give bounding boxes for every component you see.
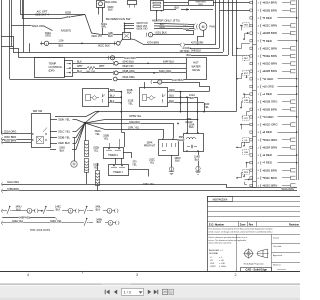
fuse F6 624G <box>113 61 115 65</box>
connector J1 pin 16 (13 RED) <box>250 116 253 118</box>
resistor R-temp zigzag <box>87 66 95 69</box>
wire module out right <box>163 9 176 11</box>
svg-text:502B BRN: 502B BRN <box>264 107 277 111</box>
switch SW-A3 <box>83 210 85 212</box>
wire 8 RED <box>262 132 264 134</box>
svg-text:321A ORG: 321A ORG <box>7 181 19 184</box>
svg-text:BLK: BLK <box>195 158 200 161</box>
svg-text:349Q YEL: 349Q YEL <box>50 219 62 223</box>
wire motor pin 2 down <box>102 8 104 35</box>
wire 502C BRN <box>262 25 264 27</box>
wire timer2 pin risers <box>109 143 111 147</box>
svg-text:1.5A: 1.5A <box>58 39 63 42</box>
svg-text:9 RED: 9 RED <box>264 153 272 157</box>
inline connector X6 <box>85 159 89 173</box>
svg-text:ORG: ORG <box>45 34 51 38</box>
svg-text:10 GRD: 10 GRD <box>264 84 274 88</box>
svg-text:REAR: REAR <box>178 139 185 142</box>
connector J1 pin 4 (502C BRN) <box>250 24 253 26</box>
svg-text:FAN: FAN <box>210 25 215 29</box>
svg-text:YEL: YEL <box>94 166 99 169</box>
wire left bus V4 <box>20 0 22 15</box>
connector J1 pin 21 (9 RED) <box>250 154 253 156</box>
wire fanout feed 330B YEL <box>50 137 57 139</box>
svg-text:348F YEL: 348F YEL <box>19 215 31 219</box>
svg-text:± .0050: ± .0050 <box>219 266 227 268</box>
blower switch SW1 box <box>123 33 131 40</box>
right bus line 1 <box>296 0 298 180</box>
title divider right <box>271 234 273 271</box>
DRI diag <box>43 128 47 133</box>
svg-text:BLK: BLK <box>169 99 174 103</box>
svg-text:634C ORG: 634C ORG <box>159 70 171 73</box>
wire 33PL YEL <box>85 123 164 138</box>
hot water valve box <box>187 58 207 80</box>
svg-text:BLOWER FAN SW: BLOWER FAN SW <box>106 17 131 21</box>
terminal box <box>291 100 296 103</box>
svg-text:RET: RET <box>244 58 249 60</box>
wire switch feed <box>103 34 123 36</box>
switch SW-A1 <box>6 210 8 212</box>
bus junction <box>296 154 298 156</box>
blower terminal dots <box>124 22 126 24</box>
wire 7 RED <box>262 162 264 164</box>
svg-text:602A ORG: 602A ORG <box>105 0 117 4</box>
terminal box <box>291 62 296 65</box>
wire fanout feed 330S BLK <box>50 149 56 151</box>
wire feed to J1 pin 22 <box>247 162 250 164</box>
connector J1 pin 18 (8 RED) <box>250 131 253 133</box>
svg-text:N/S(90T): N/S(90T) <box>61 29 71 32</box>
svg-text:BLU: BLU <box>110 93 115 97</box>
terminal box <box>291 138 296 141</box>
connector J1 pin 13 (1 RED) <box>250 93 253 95</box>
wire left bus V5 <box>22 0 24 19</box>
svg-text:4: 4 <box>27 273 29 277</box>
wire timer2 right <box>123 153 132 159</box>
thermal switch T1 <box>27 208 32 213</box>
wire stack to wireA <box>86 172 88 184</box>
wire 602B VIO <box>20 14 85 16</box>
svg-text:330K YEL: 330K YEL <box>58 117 71 121</box>
wire 101V jog <box>200 82 210 92</box>
connector J1 pin 8 (502E BRN) <box>250 55 253 57</box>
svg-text:WHT: WHT <box>77 65 83 68</box>
svg-text:332F BLK: 332F BLK <box>58 141 70 145</box>
svg-text:Material: Material <box>273 263 281 266</box>
connector bottom elbow <box>245 179 253 181</box>
svg-text:332A BLK: 332A BLK <box>129 121 140 124</box>
wire timer out <box>128 170 149 177</box>
svg-text:602K VIO: 602K VIO <box>137 27 148 31</box>
wire riser R1 <box>219 0 221 48</box>
button prev page <box>114 290 117 295</box>
wire 502B BRN <box>262 33 264 35</box>
connector J1 pin 25 (502G BRN) <box>250 184 253 186</box>
svg-text:04B BLK: 04B BLK <box>191 48 201 52</box>
svg-text:YEL: YEL <box>128 102 133 105</box>
svg-text:BLU: BLU <box>169 93 174 97</box>
bus junction <box>296 78 298 80</box>
resistor module RM1 box <box>151 1 164 11</box>
wire 10 GRD <box>262 86 264 88</box>
svg-text:BLK: BLK <box>16 209 21 212</box>
wire WHT temp <box>73 68 87 70</box>
svg-text:Revision: Revision <box>289 223 300 226</box>
wire 5 RED <box>262 40 264 42</box>
connector J1 body <box>252 0 254 187</box>
svg-text:601B ORG: 601B ORG <box>264 100 278 104</box>
svg-text:YEL: YEL <box>204 106 209 109</box>
svg-text:WATER: WATER <box>191 64 200 68</box>
connector J1 pin 22 (7 RED) <box>250 161 253 163</box>
svg-text:YEL: YEL <box>104 137 109 140</box>
wire 427H BRN <box>144 44 180 46</box>
toolbar tab highlight <box>102 284 131 285</box>
inline connector X5 <box>85 141 89 157</box>
relay K2 coil <box>187 138 196 140</box>
svg-text:634D VIO: 634D VIO <box>123 65 134 68</box>
title right cells <box>272 243 301 245</box>
svg-text:Unless otherwise specified dim: Unless otherwise specified dimensions ar… <box>208 236 247 239</box>
connector J1 pin 12 (10 GRD) <box>250 85 253 87</box>
right bus line 2 <box>298 0 300 180</box>
connector J1 pin 17 (601D ORG) <box>250 123 253 125</box>
svg-text:BLK: BLK <box>59 45 64 48</box>
wire 04A row <box>190 48 219 50</box>
wire 348F YEL <box>2 217 55 219</box>
svg-text:375B BRN: 375B BRN <box>7 188 19 191</box>
svg-text:BLK: BLK <box>56 209 61 212</box>
title section line <box>207 234 300 236</box>
bus junction <box>296 131 298 133</box>
connector J1 pin 7 (502C BRN) <box>250 47 253 49</box>
wire jog at node J2 <box>10 49 19 58</box>
wire 1 RED <box>262 94 264 96</box>
svg-text:.XXXX: .XXXX <box>210 266 217 268</box>
wire 601B ORG <box>262 101 264 103</box>
wire 101B to valve jog <box>181 91 210 93</box>
svg-text:Drawn: Drawn <box>273 236 280 239</box>
wire 6 RED <box>262 17 264 19</box>
button last page <box>154 290 157 295</box>
wire timer link <box>115 158 117 164</box>
svg-text:LRB: LRB <box>244 100 249 102</box>
svg-text:634A ORG: 634A ORG <box>123 76 135 79</box>
connector J1 pin 19 (502G BRN) <box>250 139 253 141</box>
wire 103A BLK drop <box>197 97 199 133</box>
third angle projection symbol circle <box>245 250 253 258</box>
wire 15A BLK <box>49 43 117 45</box>
relay K2 pins <box>186 132 188 134</box>
wire 502E BRN <box>262 55 264 57</box>
wire 375B BRN long <box>2 190 297 192</box>
svg-text:HOT: HOT <box>193 61 199 65</box>
svg-text:ORL: ORL <box>101 26 107 29</box>
svg-text:5 RED: 5 RED <box>264 39 272 43</box>
fuse F7 634B <box>113 71 115 75</box>
wire diagonal 602C VIO <box>85 15 103 35</box>
fuse F2 <box>41 41 43 45</box>
svg-text:E.O. Number: E.O. Number <box>209 223 224 226</box>
svg-text:8 RED: 8 RED <box>264 130 272 134</box>
terminal box <box>291 24 296 27</box>
relay K1 box <box>159 140 179 156</box>
TEMP CONTROL enclosure <box>35 58 65 78</box>
svg-text:502E BRN: 502E BRN <box>264 168 277 172</box>
terminal box <box>291 169 296 172</box>
wire BLK temp <box>73 63 113 65</box>
wire riser 204 <box>204 103 206 112</box>
svg-text:ANGULAR ± ?°: ANGULAR ± ?° <box>209 249 223 252</box>
terminal box <box>291 31 296 34</box>
svg-text:BLK: BLK <box>127 92 132 95</box>
svg-text:502C BRN: 502C BRN <box>264 24 278 28</box>
buzzer BZ1 <box>71 161 77 167</box>
button first page <box>104 290 106 295</box>
motor B1 symbol <box>99 2 103 6</box>
wire feed to J1 pin 14 <box>242 102 247 108</box>
top module X9 <box>128 1 137 5</box>
svg-text:Checked: Checked <box>273 246 282 248</box>
svg-text:11 RED: 11 RED <box>264 77 274 81</box>
terminal box <box>291 1 296 4</box>
wire 502D BRN <box>262 63 264 65</box>
TEMP connector pins <box>69 63 71 65</box>
wire 331 riser <box>144 85 146 89</box>
svg-text:BLK: BLK <box>108 35 113 38</box>
connector J1 pin 5 (502B BRN) <box>250 32 253 34</box>
wire feed to J1 pin 13 <box>244 94 250 96</box>
wire fan feed 2 <box>154 25 194 28</box>
terminal box <box>291 47 296 50</box>
svg-text:502G BRN: 502G BRN <box>264 184 278 188</box>
relay K1 ground <box>171 155 173 167</box>
wire 427G GRN <box>185 44 216 46</box>
svg-text:1 / 3: 1 / 3 <box>124 290 131 294</box>
svg-text:Rev: Rev <box>249 223 254 226</box>
svg-text:BLK: BLK <box>108 9 113 12</box>
fuse F8 634A <box>113 77 117 81</box>
toolbar background <box>0 284 300 300</box>
svg-text:This drawing is the property o: This drawing is the property of Unit Rig… <box>208 228 272 231</box>
wire K2 coil feed <box>187 97 189 133</box>
svg-text:7 RED: 7 RED <box>264 161 272 165</box>
bracket A3 <box>113 209 116 213</box>
timer T1 box <box>109 165 129 176</box>
wire 321A ORG feed <box>2 133 31 135</box>
connector J1 pin 1 (502A BRN) <box>250 1 253 3</box>
svg-text:DRI SW: DRI SW <box>33 109 43 113</box>
svg-text:BLK: BLK <box>175 7 180 10</box>
svg-text:502B BRN: 502B BRN <box>264 69 277 73</box>
svg-text:CAD - Solid Edge: CAD - Solid Edge <box>246 268 268 272</box>
svg-text:321A ORG: 321A ORG <box>4 130 16 134</box>
svg-text:634F BLK: 634F BLK <box>163 60 174 63</box>
wire blower terminal bus <box>124 23 126 32</box>
wire 502E BRN <box>262 170 264 172</box>
svg-text:YEL: YEL <box>132 163 137 166</box>
DRI switch box <box>32 114 51 148</box>
TEMP connector box <box>65 61 73 77</box>
svg-text:BLK: BLK <box>189 126 194 129</box>
wire BLK row <box>191 55 228 57</box>
svg-text:BLK: BLK <box>190 97 195 100</box>
wire 502G BRN <box>262 185 264 187</box>
wire 502C BRN <box>262 48 264 50</box>
wire diag to 427H <box>130 39 144 45</box>
flasher U1 symbol <box>86 95 91 101</box>
connector J1 pin 15 (502B BRN) <box>250 108 253 110</box>
wire riser R4 <box>236 0 238 112</box>
thermal switch T3 <box>107 208 112 213</box>
wire 104D BLK <box>198 151 200 166</box>
svg-text:101V BLU: 101V BLU <box>172 79 184 82</box>
bracket B1 <box>114 221 117 225</box>
wire WHT temp 2 <box>95 68 120 70</box>
wire feed to J1 pin 17 <box>241 124 250 126</box>
thermal switch T4 <box>108 220 113 225</box>
svg-text:unless otherwise specified.: unless otherwise specified. <box>208 242 232 245</box>
svg-text:1 RED: 1 RED <box>264 92 272 96</box>
wire module pin down <box>156 11 158 21</box>
connector J1 pin 20 (502R BRN) <box>250 146 253 148</box>
terminal box <box>291 108 296 111</box>
wire 634B ORG <box>118 72 186 74</box>
svg-text:M: M <box>202 25 205 29</box>
wire to relay box top <box>190 9 213 11</box>
wire 453D BRN feed <box>2 142 31 144</box>
button view icon 2 <box>169 289 174 294</box>
wire feed row 1 from module <box>213 2 250 4</box>
wire feed to J1 pin 8 <box>244 55 250 57</box>
bus junction <box>296 40 298 42</box>
third angle projection symbol cone <box>258 250 263 257</box>
svg-text:.XXX: .XXX <box>210 263 215 265</box>
svg-text:330B YEL: 330B YEL <box>58 135 71 139</box>
wire feed to J1 pin 5 <box>245 34 247 40</box>
switch SW-A2 <box>42 210 44 212</box>
bus junction <box>296 116 298 118</box>
svg-text:BLK: BLK <box>60 149 65 152</box>
svg-text:6 RED: 6 RED <box>264 16 272 20</box>
wire module link 1 <box>163 2 188 4</box>
wire fanout down <box>85 123 87 141</box>
svg-text:502E BRN: 502E BRN <box>264 54 277 58</box>
wire 634D VIO <box>120 68 186 70</box>
page number field <box>122 288 144 295</box>
wire riser R2 <box>223 0 225 52</box>
wire jog at node J1 <box>1 47 13 53</box>
terminal box <box>291 54 296 57</box>
svg-text:3: 3 <box>136 273 138 277</box>
flasher U2 box <box>140 88 168 107</box>
wire fanout to trunk <box>85 112 98 123</box>
wire 11 RED <box>262 78 264 80</box>
wire stub 602K VIO <box>125 28 135 30</box>
relay K1 contacts <box>162 143 164 147</box>
wire stub 602H VIO <box>125 23 135 25</box>
wire feed to J1 pin 16 <box>243 112 250 117</box>
svg-text:BLK: BLK <box>77 60 82 63</box>
svg-text:502B BRN: 502B BRN <box>264 31 277 35</box>
sheet brackets left feeds <box>1 132 4 136</box>
svg-text:BRN: BRN <box>110 88 116 92</box>
svg-text:BLU: BLU <box>77 70 82 73</box>
wire 502F BRN <box>262 177 264 179</box>
svg-text:502A BRN: 502A BRN <box>264 1 277 5</box>
wire 502A BRN <box>262 2 264 4</box>
wire feed to J1 pin 20 <box>237 143 250 148</box>
svg-text:Zone: Zone <box>240 223 246 226</box>
wire 602B VIO upper <box>22 18 60 20</box>
svg-text:453D BRN: 453D BRN <box>4 138 16 142</box>
wire fan feed 3 <box>154 28 194 30</box>
wire feed to J1 pin 4 <box>241 25 250 27</box>
svg-text:427H BRN: 427H BRN <box>147 42 159 45</box>
svg-text:602C BLK: 602C BLK <box>98 44 110 48</box>
wire 502B BRN <box>262 109 264 111</box>
wire feed to J1 pin 7 <box>237 44 250 49</box>
svg-text:502D BRN: 502D BRN <box>264 62 278 66</box>
connector J1 pin 3 (6 RED) <box>250 17 253 19</box>
svg-text:502F BRN: 502F BRN <box>264 176 277 180</box>
motor B1 pins <box>98 7 99 8</box>
connector J1 pin 6 (5 RED) <box>250 40 253 42</box>
svg-text:502B BRN: 502B BRN <box>264 8 277 12</box>
zone tick <box>82 271 84 273</box>
wire 04B BLK long <box>13 52 223 54</box>
sheet bracket 101V <box>150 80 153 84</box>
wire fanout feed 331C YEL <box>50 131 57 133</box>
svg-text:PROP MT: PROP MT <box>144 144 156 147</box>
wire timer riser <box>121 133 124 148</box>
wire 101A BLK <box>181 97 198 99</box>
motor B1 box <box>97 1 105 8</box>
wire 427G riser <box>215 0 217 45</box>
bus junction <box>296 86 298 88</box>
sheet bracket 427 <box>180 43 183 47</box>
svg-text:602A ORG: 602A ORG <box>32 24 45 28</box>
wire 602L drop <box>186 31 194 35</box>
svg-text:2: 2 <box>235 273 237 277</box>
svg-text:TIMER 2: TIMER 2 <box>108 154 118 157</box>
flasher U2 symbol <box>143 95 147 101</box>
wire 634A ORG long <box>10 79 112 81</box>
wire feed to J1 pin 19 <box>245 140 247 146</box>
top relay box K0 <box>189 1 214 6</box>
svg-text:Third Angle Projection: Third Angle Projection <box>243 263 264 266</box>
svg-text:VALVE: VALVE <box>192 68 200 72</box>
wire 602A ORG <box>11 25 31 27</box>
svg-text:BLK: BLK <box>96 209 101 212</box>
relay K2 contact <box>187 146 190 148</box>
wire feed to J1 pin 23 <box>245 171 247 177</box>
button view icon 1 <box>163 289 168 294</box>
wire 33HW YEL <box>85 120 198 124</box>
wire riser R3 <box>228 0 230 55</box>
title divider mid <box>236 234 238 271</box>
wire 13 RED <box>262 116 264 118</box>
button next page <box>148 290 151 295</box>
svg-text:BLK: BLK <box>110 99 115 103</box>
row B kick-out circuit <box>1 221 4 225</box>
terminal box <box>291 184 296 187</box>
svg-text:602L BLK: 602L BLK <box>156 31 168 35</box>
flasher U1 leads <box>108 91 121 93</box>
svg-text:TIMER 1: TIMER 1 <box>113 171 123 174</box>
bracket A2 <box>74 209 77 213</box>
